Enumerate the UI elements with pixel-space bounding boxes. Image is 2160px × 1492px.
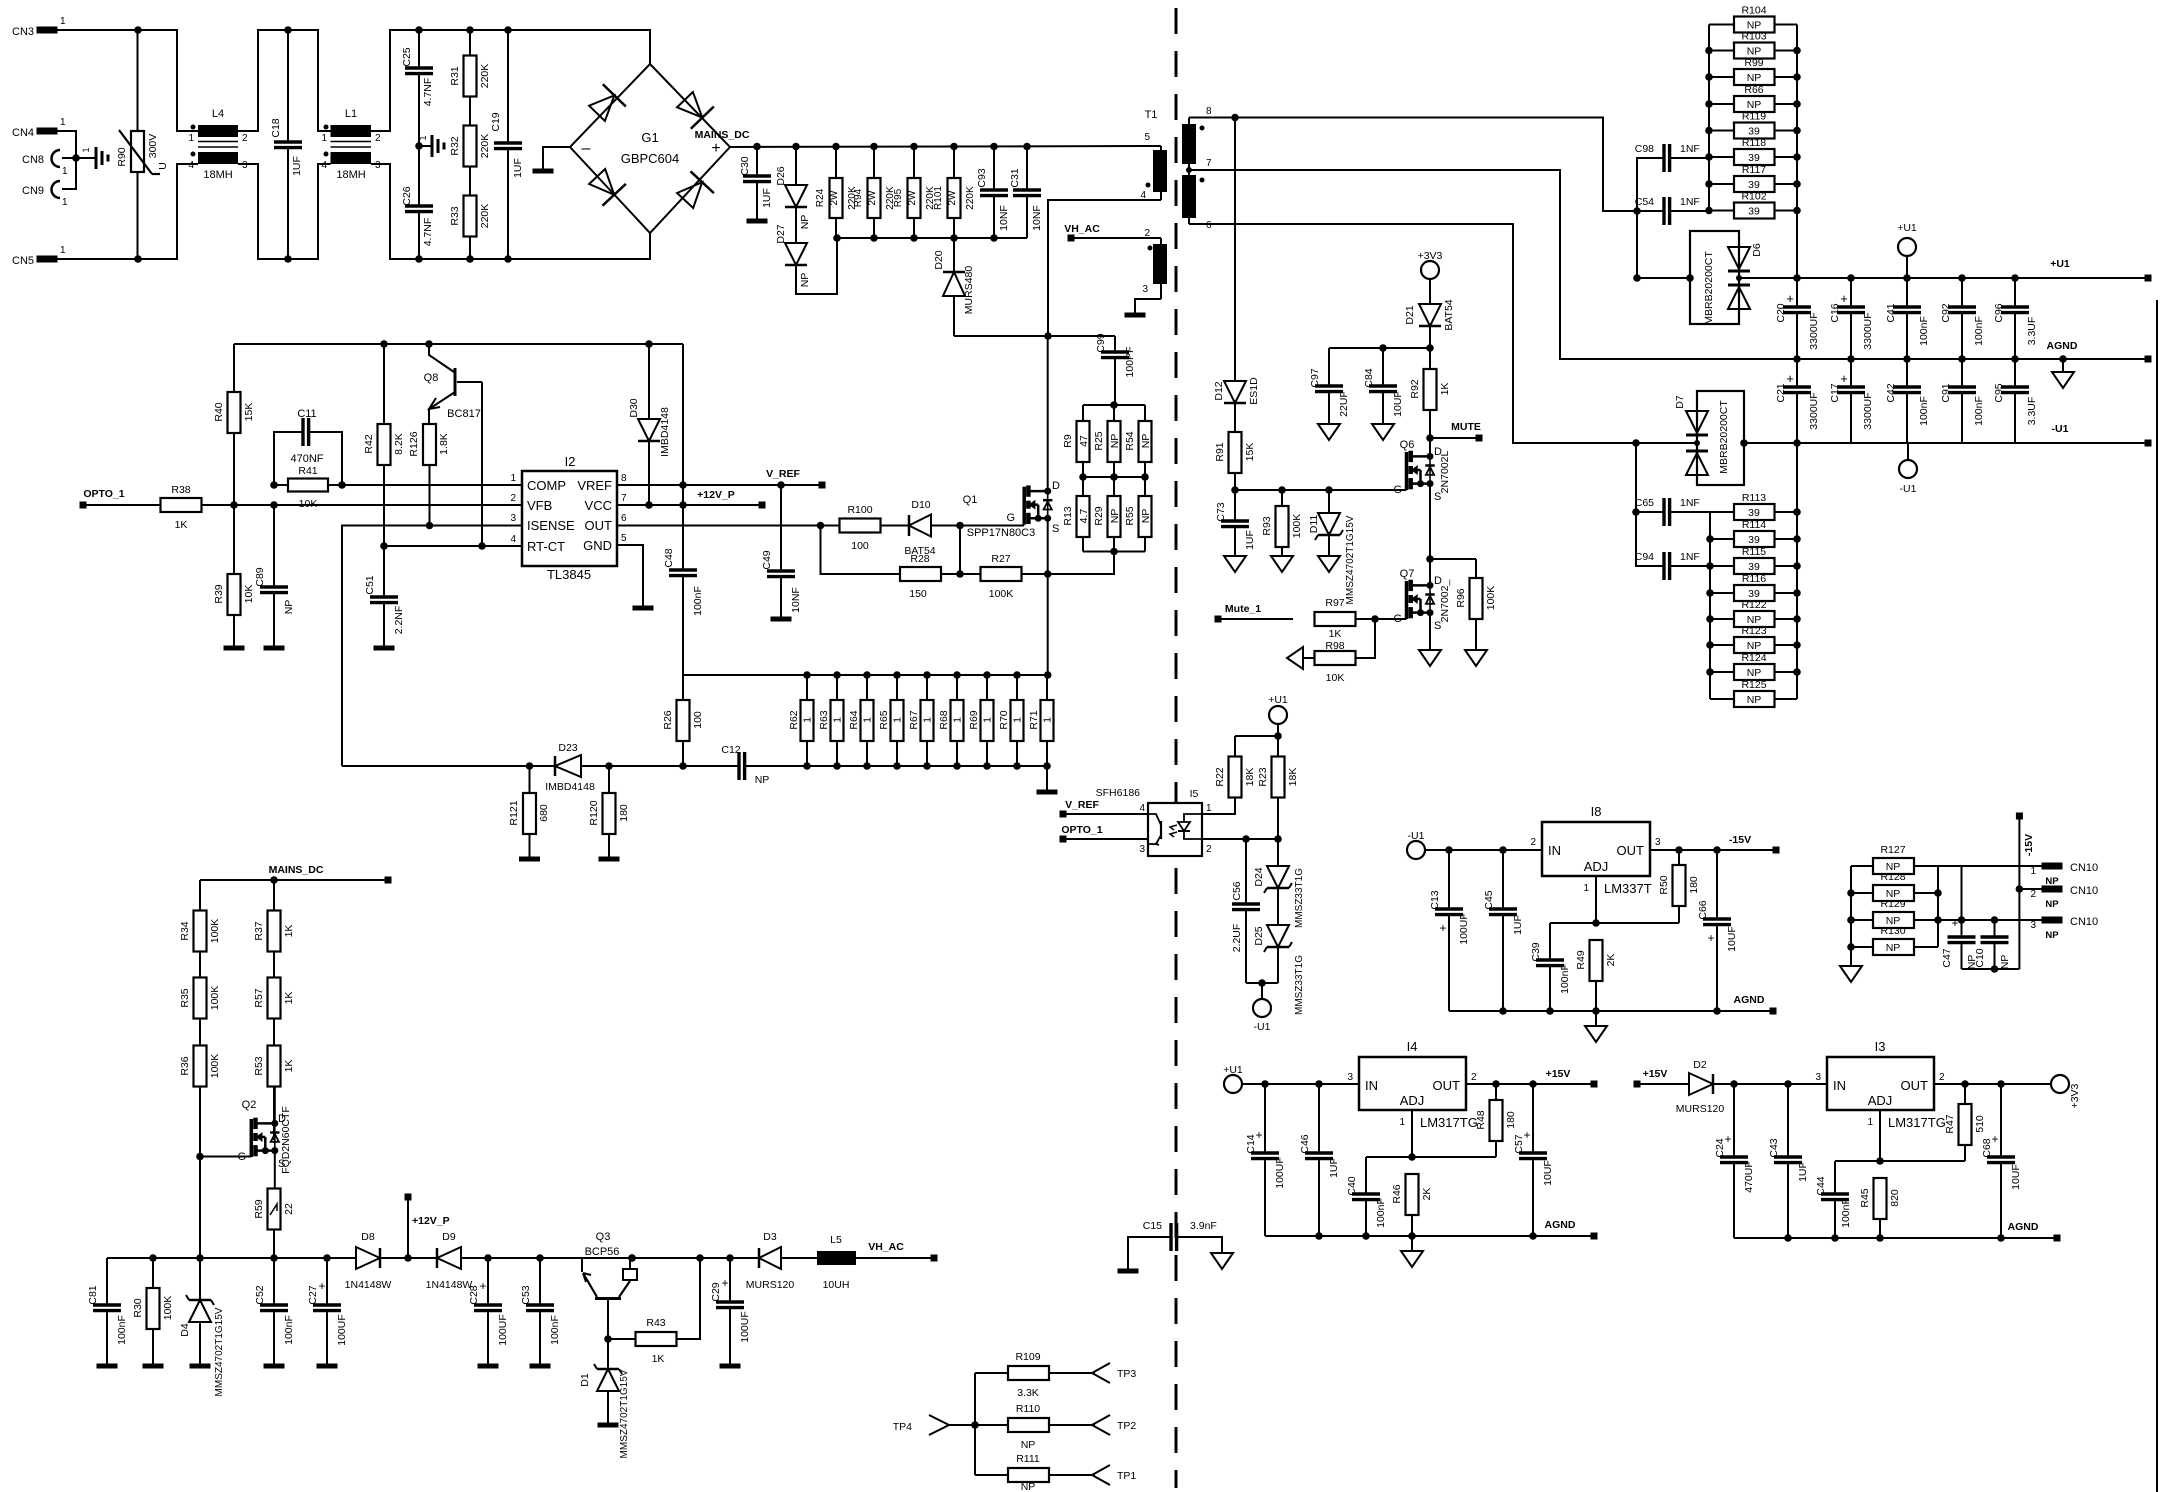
resistor R31: [449, 30, 491, 97]
svg-text:CN10: CN10: [2070, 862, 2098, 874]
svg-text:100K: 100K: [209, 1054, 221, 1079]
svg-text:R32: R32: [449, 136, 461, 155]
wire opto pin2 node: [1202, 835, 1282, 843]
node +3V3 terminal at I3: [2051, 1075, 2081, 1108]
wire I3 AGND bus: [1734, 1221, 2061, 1242]
svg-text:R29: R29: [1093, 506, 1105, 525]
svg-text:+: +: [1724, 1132, 1731, 1146]
svg-text:C26: C26: [401, 186, 413, 205]
svg-text:C51: C51: [364, 575, 376, 594]
svg-text:OPTO_1: OPTO_1: [83, 488, 124, 500]
svg-text:820: 820: [1889, 1189, 1901, 1207]
resistor R70: [998, 675, 1024, 766]
ground arrow at C84: [1372, 424, 1394, 440]
resistor R22: [1214, 736, 1256, 798]
wire ladder2 right rail: [1793, 443, 1801, 699]
svg-text:10UF: 10UF: [1392, 391, 1404, 417]
wire I4 ADJ node: [1366, 1153, 1496, 1161]
wire ladder right rail (+U1 side): [1793, 25, 1801, 279]
svg-text:1: 1: [62, 197, 68, 208]
svg-text:D6: D6: [1751, 243, 1763, 257]
svg-text:+U1: +U1: [2050, 258, 2070, 270]
svg-text:100nF: 100nF: [1559, 964, 1571, 994]
svg-text:D12: D12: [1213, 381, 1225, 400]
resistor R67: [908, 675, 934, 766]
svg-text:1: 1: [62, 166, 68, 177]
svg-text:+: +: [1439, 921, 1446, 935]
svg-text:3: 3: [1142, 284, 1148, 295]
svg-text:C73: C73: [1215, 502, 1227, 521]
svg-text:1UF: 1UF: [761, 188, 773, 208]
svg-text:CN3: CN3: [12, 26, 34, 38]
svg-text:R99: R99: [1744, 57, 1763, 69]
svg-text:NP: NP: [799, 215, 811, 230]
svg-text:GND: GND: [583, 538, 612, 553]
ground arrow at C97: [1318, 424, 1340, 440]
svg-text:NP: NP: [1747, 667, 1762, 679]
svg-text:+: +: [1991, 1132, 1998, 1146]
svg-text:4: 4: [188, 160, 194, 171]
svg-text:MAINS_DC: MAINS_DC: [269, 864, 324, 876]
svg-text:2W: 2W: [907, 190, 918, 206]
svg-text:R67: R67: [908, 710, 920, 729]
svg-text:LM317TG: LM317TG: [1420, 1115, 1478, 1130]
svg-text:AGND: AGND: [2047, 340, 2078, 352]
node +U1 at R23: [1268, 694, 1288, 724]
svg-text:G: G: [1006, 512, 1015, 524]
svg-text:-15V: -15V: [2023, 834, 2035, 856]
svg-text:C52: C52: [254, 1285, 266, 1304]
capacitor C66 10UF: [1697, 850, 1738, 1011]
diode D27 (NP): [775, 207, 811, 287]
ground arrow at R98: [1287, 647, 1303, 669]
svg-text:TL3845: TL3845: [547, 567, 591, 582]
svg-text:39: 39: [1748, 507, 1760, 519]
svg-text:R45: R45: [1859, 1188, 1871, 1207]
wire +U1 rail: [1739, 258, 2152, 282]
capacitor C73 1UF: [1215, 490, 1256, 556]
svg-text:C21: C21: [1775, 383, 1787, 402]
svg-text:100nF: 100nF: [283, 1315, 295, 1345]
svg-text:BC817: BC817: [447, 408, 481, 420]
resistor R47: [1944, 1084, 1986, 1161]
svg-text:TP4: TP4: [893, 1421, 912, 1433]
capacitor C49: [761, 485, 802, 617]
transformer T1 secondary winding 8-7: [1182, 106, 1212, 170]
wire opto pin1 to R22: [1202, 797, 1235, 814]
transistor Q1 SPP17N80C3: [960, 480, 1060, 539]
svg-text:1: 1: [1867, 1117, 1873, 1128]
svg-text:4.7: 4.7: [1078, 509, 1090, 524]
capacitor C51: [364, 546, 405, 646]
svg-text:I8: I8: [1591, 804, 1602, 819]
zener diode D24 MMSZ33T1G: [1253, 839, 1305, 928]
svg-text:D20: D20: [933, 250, 945, 269]
svg-text:1: 1: [1399, 1117, 1405, 1128]
svg-text:R116: R116: [1742, 573, 1766, 585]
svg-text:R97: R97: [1325, 597, 1344, 609]
resistor R48: [1475, 1084, 1517, 1157]
bridge rectifier G1: [570, 64, 730, 233]
transformer T1 secondary winding 7-6: [1182, 158, 1212, 231]
svg-text:R36: R36: [179, 1056, 191, 1075]
svg-text:100K: 100K: [989, 588, 1014, 600]
svg-text:1: 1: [982, 717, 994, 723]
wire snubber mid rail: [1079, 473, 1149, 481]
svg-text:C93: C93: [976, 168, 988, 187]
wire R22/R23 top to +U1: [1235, 723, 1282, 740]
node V_REF: [766, 468, 825, 489]
svg-text:VH_AC: VH_AC: [1064, 223, 1100, 235]
svg-text:NP: NP: [2045, 930, 2059, 941]
resistor R92: [1409, 348, 1451, 438]
svg-text:10UF: 10UF: [2010, 1164, 2022, 1190]
svg-text:3: 3: [1347, 1072, 1353, 1083]
svg-text:D8: D8: [361, 1231, 375, 1243]
wire I8 ADJ node: [1550, 919, 1679, 927]
svg-text:3: 3: [242, 160, 248, 171]
svg-text:+: +: [1951, 916, 1958, 930]
svg-text:C91: C91: [1940, 383, 1952, 402]
svg-text:3.3UF: 3.3UF: [2026, 317, 2038, 346]
node MAINS_DC: [695, 129, 1161, 150]
svg-text:1: 1: [802, 717, 814, 723]
svg-text:2W: 2W: [867, 190, 878, 206]
wire Q1 source to sense bus: [1044, 518, 1052, 679]
svg-text:MMSZ4702T1G15V: MMSZ4702T1G15V: [1345, 515, 1356, 604]
svg-text:+15V: +15V: [1546, 1068, 1571, 1080]
resistor R32: [449, 97, 491, 167]
svg-text:OUT: OUT: [1617, 843, 1645, 858]
svg-text:NP: NP: [2045, 899, 2059, 910]
capacitor C11 470NF: [274, 408, 342, 485]
svg-text:1: 1: [321, 133, 327, 144]
svg-text:5: 5: [1144, 132, 1150, 143]
svg-text:2: 2: [1939, 1072, 1945, 1083]
svg-text:R130: R130: [1880, 925, 1905, 937]
svg-text:R48: R48: [1475, 1110, 1487, 1129]
capacitor C65 1NF: [1632, 443, 1710, 526]
svg-text:C43: C43: [1768, 1138, 1780, 1157]
svg-text:R65: R65: [878, 710, 890, 729]
resistor R36: [179, 1019, 221, 1259]
diode D23 IMBD4148: [545, 742, 595, 793]
ground bar at bridge minus: [533, 169, 554, 174]
svg-text:100K: 100K: [1485, 586, 1497, 611]
capacitor C42 100nF: [1885, 359, 1930, 443]
svg-text:100nF: 100nF: [1918, 316, 1930, 346]
svg-text:R31: R31: [449, 66, 461, 85]
svg-text:1: 1: [2030, 866, 2036, 877]
svg-text:+3V3: +3V3: [2069, 1083, 2081, 1108]
resistor R41: [270, 465, 346, 510]
svg-text:10K: 10K: [1326, 672, 1345, 684]
wire bridge minus to earth bar: [543, 147, 570, 171]
svg-text:C98: C98: [1635, 143, 1654, 155]
resistor R49: [1575, 940, 1617, 1011]
resistor R42: [363, 344, 405, 546]
svg-text:R94: R94: [853, 188, 864, 207]
capacitor C26: [401, 146, 434, 259]
svg-text:10NF: 10NF: [1031, 205, 1043, 231]
wire R127 ladder right rail: [1934, 866, 1942, 947]
svg-text:8: 8: [1206, 106, 1212, 117]
svg-text:R38: R38: [171, 484, 190, 496]
svg-text:NP: NP: [1140, 434, 1152, 449]
svg-text:C25: C25: [401, 47, 413, 66]
svg-text:15K: 15K: [1244, 443, 1256, 462]
svg-text:Mute_1: Mute_1: [1225, 603, 1261, 615]
node TP2: [1092, 1415, 1136, 1435]
resistor R63: [818, 675, 844, 766]
svg-text:R39: R39: [213, 584, 225, 603]
ground bar at C29: [720, 1364, 741, 1369]
svg-text:R115: R115: [1742, 546, 1766, 558]
svg-text:TP2: TP2: [1117, 1420, 1136, 1432]
resistor R34: [179, 880, 221, 952]
svg-text:100K: 100K: [209, 986, 221, 1011]
svg-text:R43: R43: [646, 1317, 665, 1329]
capacitor C44 100nF: [1815, 1161, 1852, 1238]
svg-text:C99: C99: [1095, 333, 1107, 352]
svg-text:15K: 15K: [243, 403, 255, 422]
capacitor C89 (NP): [254, 505, 295, 646]
capacitor C47 (NP): [1941, 866, 1978, 969]
svg-text:470NF: 470NF: [290, 453, 323, 465]
svg-text:LM317TG: LM317TG: [1888, 1115, 1946, 1130]
diode D26 (NP): [775, 147, 811, 230]
svg-text:18K: 18K: [1244, 768, 1256, 787]
svg-text:1: 1: [892, 717, 904, 723]
svg-text:T1: T1: [1145, 109, 1158, 121]
svg-text:SPP17N80C3: SPP17N80C3: [967, 527, 1036, 539]
svg-text:CN8: CN8: [22, 154, 44, 166]
wire T1 pin8 to C54/C98 node: [1189, 114, 1637, 211]
wire L4 pin2 to L1: [238, 26, 331, 131]
resistor R97: [1315, 597, 1407, 640]
svg-text:+: +: [479, 1279, 486, 1293]
svg-text:4: 4: [510, 534, 516, 545]
svg-text:3: 3: [1815, 1072, 1821, 1083]
svg-text:10K: 10K: [299, 498, 318, 510]
resistor R23: [1257, 736, 1299, 839]
ground bar at C52: [264, 1364, 285, 1369]
svg-text:R69: R69: [968, 710, 980, 729]
resistor R110 (NP): [1008, 1403, 1095, 1451]
wire CN10 pin1 line: [1938, 865, 2042, 867]
svg-text:4.7NF: 4.7NF: [422, 78, 434, 107]
svg-text:2: 2: [375, 133, 381, 144]
wire T1 pin7 to AGND rail: [1189, 170, 1797, 359]
resistor R39: [213, 505, 255, 646]
svg-text:ADJ: ADJ: [1584, 859, 1609, 874]
transistor Q3 BCP56: [582, 1231, 637, 1339]
svg-text:2N7002_: 2N7002_: [1439, 580, 1451, 623]
svg-text:-15V: -15V: [1729, 834, 1751, 846]
svg-text:MBRB20200CT: MBRB20200CT: [1703, 251, 1715, 325]
svg-text:CN10: CN10: [2070, 885, 2098, 897]
dual diode D7 MBRB20200CT: [1674, 391, 1748, 485]
resistor R111 (NP): [1008, 1453, 1095, 1492]
svg-text:8: 8: [621, 473, 627, 484]
svg-text:R37: R37: [253, 921, 265, 940]
node MUTE: [1426, 421, 1482, 442]
wire mute supply node: [1329, 344, 1434, 352]
svg-text:+: +: [1707, 931, 1714, 945]
svg-text:100UF: 100UF: [497, 1314, 509, 1346]
svg-text:1.8K: 1.8K: [438, 433, 450, 455]
svg-text:ADJ: ADJ: [1400, 1093, 1425, 1108]
svg-text:1K: 1K: [652, 1353, 665, 1365]
ground arrow at Q7 source: [1419, 650, 1441, 666]
capacitor C45 1UF: [1483, 850, 1524, 1011]
svg-text:C44: C44: [1815, 1176, 1827, 1195]
svg-text:1: 1: [60, 117, 66, 128]
svg-text:-U1: -U1: [1408, 830, 1425, 842]
svg-text:1: 1: [1583, 883, 1589, 894]
svg-text:NP: NP: [799, 273, 811, 288]
svg-text:MAINS_DC: MAINS_DC: [695, 129, 750, 141]
svg-text:AGND: AGND: [2008, 1221, 2039, 1233]
capacitor C81: [87, 1258, 128, 1364]
node +U1 terminal: [1897, 222, 1917, 278]
wire L4 pin3 to C18 bottom bus: [238, 164, 331, 263]
resistor R117 (39): [1709, 164, 1797, 192]
svg-text:3.3UF: 3.3UF: [2026, 397, 2038, 426]
resistor R28: [821, 526, 981, 601]
svg-text:MMSZ33T1G: MMSZ33T1G: [1294, 955, 1305, 1015]
svg-text:C94: C94: [1635, 551, 1654, 563]
capacitor C30: [739, 147, 773, 222]
svg-text:100K: 100K: [1291, 514, 1303, 539]
connector CN10 pin 2: [2030, 885, 2098, 910]
capacitor C20 3300UF: [1775, 278, 1820, 359]
node V_REF at opto: [1060, 799, 1149, 818]
svg-text:V_REF: V_REF: [766, 468, 800, 480]
svg-text:220K: 220K: [479, 64, 491, 89]
svg-text:C30: C30: [739, 156, 751, 175]
resistor R104 (NP): [1709, 5, 1797, 33]
svg-text:NP: NP: [1747, 614, 1762, 626]
svg-text:R113: R113: [1742, 492, 1766, 504]
varistor R90: [116, 30, 169, 259]
svg-text:CN4: CN4: [12, 127, 34, 139]
svg-text:MMSZ4702T1G15V: MMSZ4702T1G15V: [214, 1307, 225, 1396]
svg-text:2K: 2K: [1421, 1188, 1433, 1201]
resistor R65: [878, 675, 904, 766]
wire T1 pin4 to Q1 drain: [1048, 200, 1161, 336]
svg-text:C42: C42: [1885, 383, 1897, 402]
connector CN10 pin 1: [2030, 862, 2098, 887]
svg-text:VCC: VCC: [585, 498, 612, 513]
svg-text:BAT54: BAT54: [1443, 299, 1455, 330]
zener diode D11 MMSZ4702T1G15V: [1308, 490, 1356, 604]
svg-text:U: U: [157, 162, 169, 170]
svg-text:100: 100: [851, 540, 869, 552]
svg-text:TP3: TP3: [1117, 1368, 1136, 1380]
svg-text:TP1: TP1: [1117, 1470, 1136, 1482]
zener diode D1 MMSZ4702T1G15V: [579, 1339, 630, 1458]
transistor Q8 BC817: [424, 344, 482, 425]
ground bar at T1 pin3: [1125, 313, 1146, 318]
svg-text:R30: R30: [132, 1298, 144, 1317]
svg-text:510: 510: [1974, 1115, 1986, 1133]
resistor R100: [840, 504, 899, 552]
svg-text:18MH: 18MH: [203, 169, 232, 181]
wire L1 pin2 to bridge top: [371, 26, 650, 131]
resistor R109: [1008, 1351, 1095, 1399]
capacitor C43 1UF: [1768, 1084, 1809, 1238]
svg-text:D21: D21: [1404, 305, 1416, 324]
svg-text:NP: NP: [1021, 1481, 1036, 1492]
svg-text:3300UF: 3300UF: [1862, 392, 1874, 429]
svg-text:C29: C29: [710, 1282, 722, 1301]
svg-text:R27: R27: [991, 553, 1010, 565]
svg-text:C49: C49: [761, 550, 773, 569]
capacitor C52: [254, 1258, 295, 1364]
op-amp controller I2 TL3845: [510, 454, 627, 582]
wire -U1 rail: [1632, 423, 2151, 447]
svg-text:+: +: [1786, 371, 1794, 386]
ground bar at C27: [317, 1364, 338, 1369]
node TP3: [1092, 1363, 1136, 1383]
wire D27 to snubber return bus: [796, 238, 837, 294]
capacitor C97 22UF: [1309, 348, 1350, 424]
svg-text:C56: C56: [1231, 881, 1243, 900]
transistor Q6 2N7002L: [1393, 438, 1451, 559]
svg-text:Q3: Q3: [596, 1231, 611, 1243]
ground arrow at I8 AGND: [1585, 1011, 1607, 1042]
ground bar at C28: [478, 1364, 499, 1369]
svg-text:39: 39: [1748, 588, 1760, 600]
capacitor C68 10UF: [1981, 1084, 2022, 1238]
resistor R35: [179, 952, 221, 1019]
resistor R59: [253, 1189, 295, 1259]
svg-text:MMSZ33T1G: MMSZ33T1G: [1294, 868, 1305, 928]
svg-text:R109: R109: [1015, 1351, 1040, 1363]
svg-text:R110: R110: [1016, 1403, 1040, 1415]
ground arrow at R96: [1465, 650, 1487, 666]
svg-text:C45: C45: [1483, 890, 1495, 909]
svg-text:Q6: Q6: [1400, 439, 1415, 451]
capacitor C95 3.3UF: [1993, 359, 2038, 443]
capacitor C31: [1009, 147, 1043, 239]
node OPTO_1 at opto: [1060, 824, 1149, 843]
node TP1: [1092, 1465, 1136, 1485]
svg-text:-U1: -U1: [2052, 423, 2069, 435]
svg-text:MMSZ4702T1G15V: MMSZ4702T1G15V: [619, 1369, 630, 1458]
svg-text:8.2K: 8.2K: [393, 433, 405, 455]
resistor R95 2W 220K: [893, 147, 936, 239]
node VH_AC at T1 pin2: [1064, 223, 1161, 242]
svg-text:D25: D25: [1253, 926, 1265, 945]
svg-text:D7: D7: [1674, 395, 1686, 409]
svg-text:CN5: CN5: [12, 255, 34, 267]
svg-text:NP: NP: [1747, 19, 1762, 31]
svg-text:39: 39: [1748, 179, 1760, 191]
svg-text:C27: C27: [307, 1285, 319, 1304]
capacitor C10 (NP): [1974, 920, 2011, 969]
wire I8 AGND bus: [1449, 994, 1777, 1015]
svg-text:C92: C92: [1940, 303, 1952, 322]
svg-text:R26: R26: [662, 710, 674, 729]
svg-text:MBRB20200CT: MBRB20200CT: [1718, 400, 1730, 474]
wire snubber top rail: [1083, 401, 1145, 421]
svg-text:1: 1: [922, 717, 934, 723]
ground bar at R39: [224, 646, 245, 651]
svg-text:SFH6186: SFH6186: [1096, 787, 1141, 799]
svg-text:C41: C41: [1885, 303, 1897, 322]
